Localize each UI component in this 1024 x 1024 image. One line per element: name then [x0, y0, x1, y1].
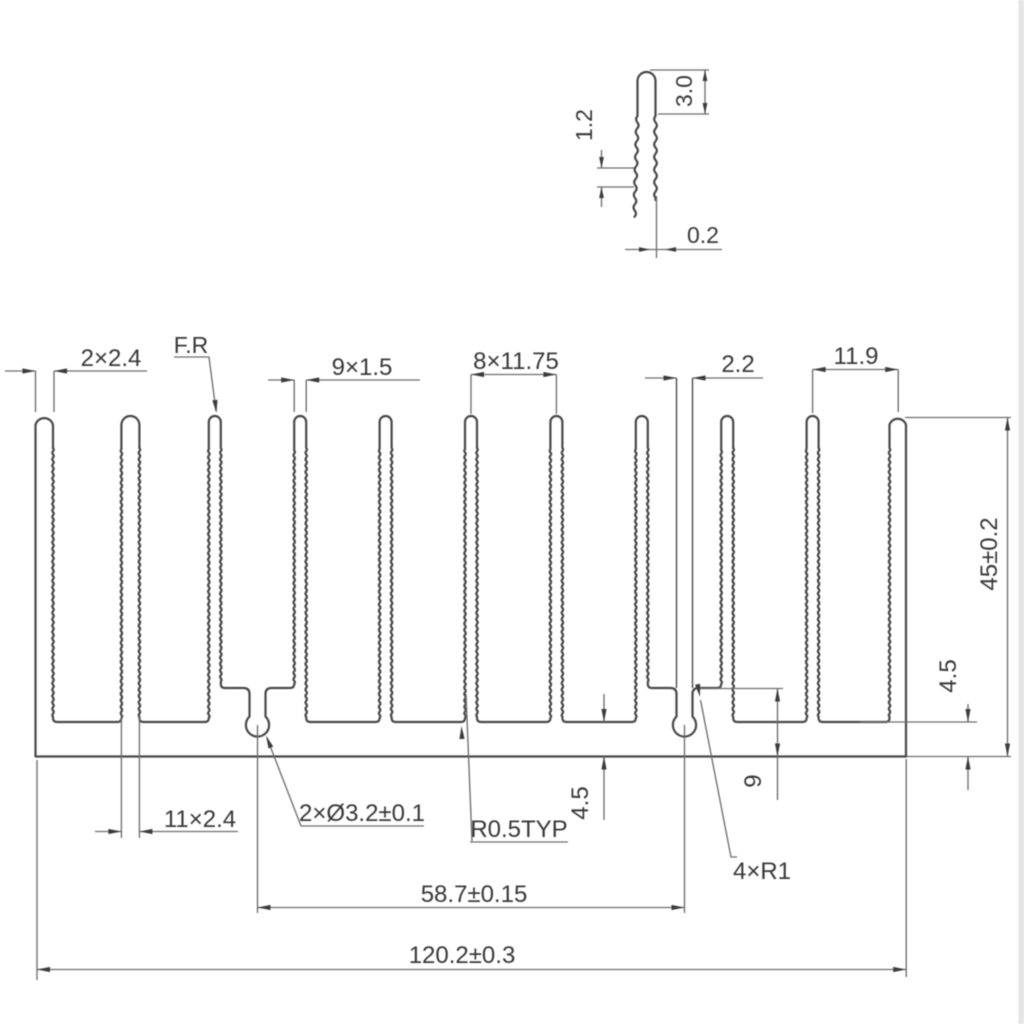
- right edge shading: [1019, 0, 1024, 1024]
- screw boss 1: shoulder, funnel and screw hole circle: [225, 688, 290, 737]
- heatsink base outline (left wall outer, bottom, right wall outer): [36, 425, 907, 757]
- svg-text:120.2±0.3: 120.2±0.3: [409, 942, 516, 969]
- svg-text:1.2: 1.2: [571, 109, 597, 141]
- fin 4 serrated: [290, 416, 310, 722]
- svg-text:9×1.5: 9×1.5: [332, 354, 393, 381]
- svg-text:2×2.4: 2×2.4: [81, 345, 142, 372]
- svg-text:R0.5TYP: R0.5TYP: [470, 816, 567, 843]
- svg-text:4.5: 4.5: [567, 786, 594, 819]
- svg-text:F.R: F.R: [174, 332, 209, 358]
- svg-text:45±0.2: 45±0.2: [976, 517, 1003, 590]
- svg-text:4×R1: 4×R1: [733, 858, 791, 885]
- dimension 58.7±0.15 hole spacing: [258, 725, 685, 913]
- svg-text:4.5: 4.5: [935, 659, 962, 692]
- detail view: single fin enlarged: [633, 72, 656, 217]
- dimension 2x2.4 left wall width: [5, 371, 147, 412]
- fin 5 serrated: [376, 416, 396, 722]
- fin 7 serrated: [546, 416, 566, 722]
- dimension 8x11.75 fin pitch: [471, 375, 556, 415]
- dimension 120.2±0.3 overall width: [37, 759, 906, 980]
- fin 2 serrated: [117, 416, 143, 722]
- dimension 9x1.5 fin width: [268, 380, 420, 412]
- fin 9 serrated: [717, 416, 737, 722]
- dimension 45±0.2 overall height: [905, 418, 1011, 757]
- svg-text:2×Ø3.2±0.1: 2×Ø3.2±0.1: [299, 800, 425, 827]
- svg-text:11×2.4: 11×2.4: [164, 806, 236, 833]
- left wall fin (2.4 wide) tip and serrated inner side: [36, 418, 58, 722]
- fin 8 serrated: [632, 416, 652, 722]
- label F.R with leader to fin 3 tip: [174, 357, 216, 411]
- dimension 2.2 boss slot width: [645, 377, 763, 379]
- svg-text:58.7±0.15: 58.7±0.15: [421, 881, 528, 908]
- slot floors: [57, 721, 886, 723]
- svg-text:0.2: 0.2: [687, 222, 719, 248]
- detail dim 1.2 serration pitch: [597, 150, 634, 207]
- detail dim 0.2 serration depth: [625, 196, 722, 258]
- dimension 4.5 base thickness right: [860, 704, 977, 790]
- dimension 9 shoulder to bottom: [696, 689, 783, 801]
- label 2xØ3.2±0.1 screw holes: [267, 738, 424, 826]
- boss 2 slot walls extended to 2.2 dimension: [677, 378, 693, 688]
- svg-text:9: 9: [740, 774, 767, 787]
- dimension 11.9 last pitch: [813, 370, 899, 414]
- fin 6 serrated: [461, 416, 481, 722]
- label 4xR1 boss fillets: [701, 700, 738, 857]
- label R0.5TYP floor fillets: [466, 694, 568, 842]
- svg-text:3.0: 3.0: [671, 75, 697, 107]
- fin 3 serrated: [205, 416, 225, 722]
- svg-text:2.2: 2.2: [721, 351, 754, 378]
- svg-text:11.9: 11.9: [834, 343, 879, 370]
- fin 10 serrated: [803, 416, 823, 722]
- detail dim 3.0 tip length: [650, 70, 709, 114]
- dimension 11x2.4 fin 2: [95, 717, 238, 838]
- svg-text:8×11.75: 8×11.75: [473, 348, 559, 375]
- right wall fin tip and serrated inner side: [886, 419, 907, 722]
- screw boss 2: 2.2 slot walls, shoulders and screw hole circle: [652, 688, 717, 737]
- dimension 4.5 base thickness middle: [603, 694, 605, 820]
